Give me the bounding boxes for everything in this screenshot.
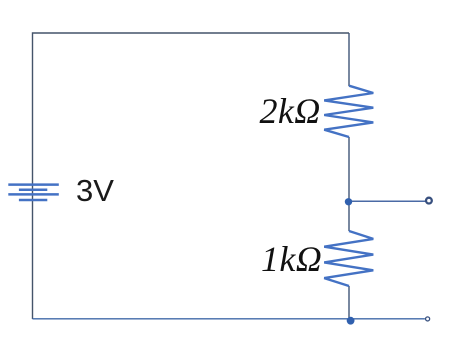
battery V1 plate long top [8,183,59,186]
wire: top + left loop [33,33,350,319]
node A junction dot [345,198,352,205]
wire: bottom [33,318,425,320]
node B junction dot [347,317,355,325]
resistor R2 1kΩ zigzag [324,231,373,286]
wire: right vertical top segment [348,33,350,86]
battery V1 plate long bottom [8,193,59,196]
svg-text:2kΩ: 2kΩ [260,91,321,131]
wire: right vertical between resistors [348,137,350,231]
wire: node A to terminal [349,200,426,202]
battery V1 plate short [19,189,47,192]
terminal A open circle [426,198,432,204]
svg-text:1kΩ: 1kΩ [261,239,322,279]
resistor R1 2kΩ zigzag [324,86,373,137]
terminal B open circle [426,317,430,321]
svg-text:3V: 3V [76,173,114,208]
battery V1 plate short bottom [19,199,47,202]
wire: right vertical bottom segment [348,286,350,319]
